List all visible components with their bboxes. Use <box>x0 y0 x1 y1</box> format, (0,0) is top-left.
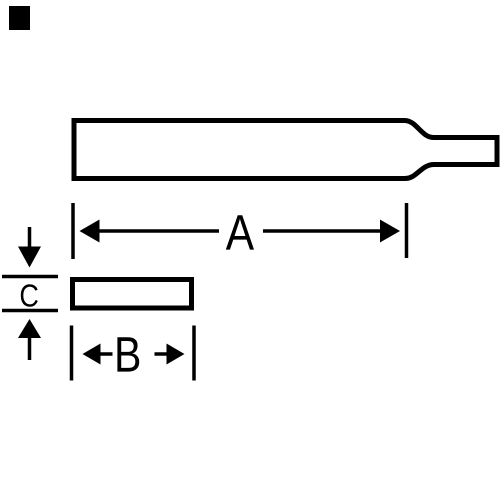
watermark square <box>9 6 30 30</box>
dimension A right shaft <box>263 229 382 233</box>
dimension C bottom tick <box>2 309 58 313</box>
dimension A left shaft <box>98 229 219 233</box>
cross-section rectangle <box>73 280 192 309</box>
dimension A left arrowhead <box>80 220 100 243</box>
dimension B left tick <box>70 326 74 381</box>
dimension A right arrowhead <box>380 220 400 243</box>
dimension C down arrowhead <box>18 247 41 268</box>
label C <box>21 284 38 307</box>
dimension A right tick <box>405 203 409 258</box>
dimension A left tick <box>71 203 75 259</box>
dimension C top tick <box>2 275 58 279</box>
dimension B right shaft <box>155 352 167 356</box>
dimension C up arrowhead <box>18 319 41 338</box>
file body outline <box>74 121 497 179</box>
dimension C down arrow shaft <box>28 227 32 248</box>
dimension B left arrowhead <box>83 344 101 365</box>
label A <box>226 215 254 249</box>
dimension B left shaft <box>99 352 113 356</box>
dimension B right tick <box>192 326 196 381</box>
label B <box>117 337 139 371</box>
dimension C up arrow shaft <box>28 338 32 360</box>
dimension B right arrowhead <box>167 344 185 365</box>
